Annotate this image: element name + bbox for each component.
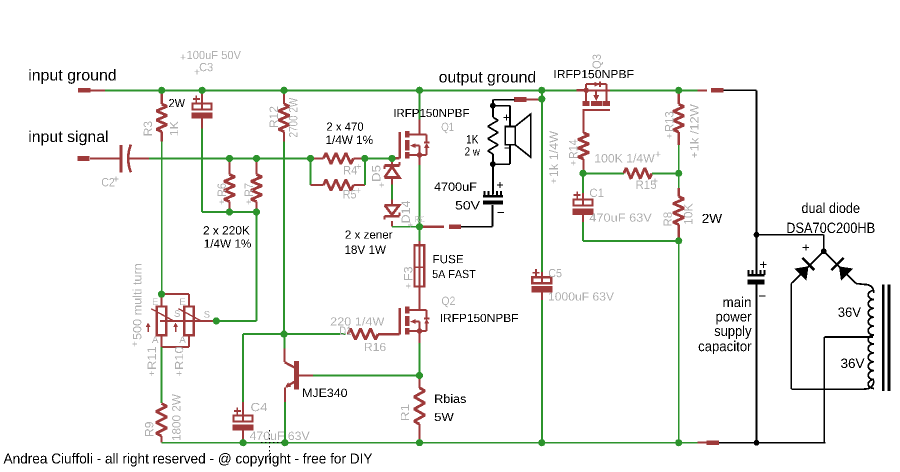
label 36V	[838, 307, 861, 317]
Q3 area (top right)	[577, 89, 587, 91]
node gate Q1 / zeners	[388, 155, 395, 162]
label capacitor	[699, 341, 752, 355]
label +	[356, 164, 361, 169]
transistor Q1 (IRFP150NPBF)	[392, 157, 400, 159]
wire right to coil top	[856, 283, 864, 286]
label + (rotated)	[571, 161, 576, 166]
speaker	[493, 105, 510, 107]
label −	[505, 147, 511, 150]
capacitor C5	[532, 277, 551, 283]
capacitor 4700uF (black)	[492, 164, 494, 194]
resistor R7	[253, 155, 260, 162]
main power supply capacitor (black)	[747, 270, 749, 275]
capacitor C4	[242, 402, 244, 415]
wiper wire	[160, 320, 213, 322]
label 1/4W 1%	[205, 239, 251, 248]
label input signal	[29, 130, 107, 145]
label 1k /12W (rotated)	[690, 104, 699, 150]
label 5A FAST	[433, 270, 476, 278]
label R15	[636, 181, 656, 189]
resistor 1K 2w (black)	[492, 106, 494, 118]
label +	[504, 114, 510, 120]
label E	[153, 298, 158, 305]
label R$1	[416, 216, 425, 223]
label +	[113, 177, 118, 182]
wire R7 to wiper	[256, 212, 258, 321]
capacitor C3	[193, 103, 212, 109]
label C3	[200, 63, 213, 71]
label R4	[344, 166, 357, 174]
label R14 (rotated)	[569, 140, 577, 159]
label C1	[590, 189, 604, 197]
FUSE F3	[419, 227, 421, 241]
label main	[723, 297, 750, 308]
label 220 1/4W	[331, 317, 385, 326]
diode D-left	[791, 251, 823, 283]
input ground pad	[78, 88, 90, 93]
label 2 x zener	[345, 230, 392, 238]
resistor R8	[678, 173, 680, 188]
R16 gate line	[280, 331, 287, 338]
diode D-right	[824, 251, 856, 283]
resistor R16	[348, 329, 378, 340]
label supply	[715, 325, 752, 339]
label S	[204, 311, 209, 318]
label 4700uF	[434, 182, 476, 190]
wire C4 top	[243, 333, 284, 335]
label R7 (rotated)	[245, 184, 253, 197]
diode D5 (zener)	[391, 158, 393, 164]
label −	[498, 211, 504, 214]
label R6 (rotated)	[217, 183, 225, 196]
resistor R4	[307, 155, 314, 162]
label R11 (rotated)	[148, 347, 156, 369]
wire R3 to pot	[161, 142, 163, 295]
label −	[759, 295, 765, 298]
transistor Q2 (IRFP150NPBF)	[392, 333, 400, 335]
label +	[194, 69, 199, 74]
label 100K 1/4W	[595, 154, 654, 163]
capacitor C5	[541, 272, 543, 277]
transformer core	[882, 284, 885, 391]
label 50V	[456, 201, 480, 209]
label 1K	[467, 135, 478, 143]
resistor R13	[675, 87, 682, 94]
label 36V	[841, 359, 864, 369]
diode D14 (zener)	[391, 200, 393, 204]
wire left loop	[790, 284, 792, 390]
label 100uF 50V	[187, 51, 241, 59]
label R8 (rotated)	[663, 212, 671, 225]
label + (rotated)	[132, 342, 137, 347]
label + (rotated)	[406, 284, 411, 289]
label dual diode	[802, 202, 859, 213]
capacitor C1	[582, 173, 584, 193]
capacitor C4	[234, 415, 253, 421]
label Q3 (rotated)	[592, 54, 603, 68]
wire D14 to output node	[392, 226, 420, 228]
MJE340 emitter	[287, 382, 295, 386]
label F3 (rotated)	[404, 267, 412, 280]
wire speaker return (black)	[461, 226, 492, 228]
label 470uF 63V	[250, 432, 310, 440]
resistor R14	[582, 121, 584, 133]
label + (rotated)	[149, 371, 154, 376]
label + (rotated)	[379, 183, 384, 188]
label C4	[251, 403, 267, 411]
POT AREA	[158, 291, 165, 298]
label 5W	[435, 413, 454, 421]
label Rbias	[435, 394, 466, 403]
label 2 x 470	[327, 122, 363, 130]
label R10 (rotated)	[175, 347, 183, 369]
label input ground	[29, 69, 115, 84]
label + (rotated)	[692, 153, 697, 158]
transistor T1 MJE340	[284, 334, 286, 348]
bottom pad	[707, 440, 719, 445]
label power	[716, 314, 751, 325]
wire to main cap (black)	[723, 89, 756, 91]
label + (rotated)	[551, 179, 556, 184]
resistor R6	[226, 155, 233, 162]
label 2700 2W (rotated)	[289, 98, 297, 137]
center tap	[824, 336, 873, 338]
label 1800 2W (rotated)	[172, 394, 180, 440]
label MJE340	[303, 389, 347, 397]
resistor R1 Rbias	[418, 376, 420, 388]
wire D5-D14	[391, 185, 393, 200]
V+ pad top right	[697, 89, 707, 91]
label DSA70C200HB	[787, 223, 874, 234]
label + (rotated)	[246, 200, 251, 205]
label 1k 1/4W (rotated)	[549, 131, 558, 176]
label Q1	[442, 123, 454, 134]
label + (rotated)	[408, 223, 413, 228]
label R9 (rotated)	[145, 422, 153, 436]
label output ground	[439, 71, 535, 86]
junction dot overlay	[158, 87, 165, 94]
resistor R5 parallel loop	[310, 158, 312, 185]
wire R12 to R16 node	[283, 142, 285, 335]
wire Q1 source to output node	[419, 165, 421, 227]
capacitor C3 node	[199, 87, 206, 94]
label 500 multi turn (rotated)	[133, 264, 142, 339]
capacitor C1	[574, 200, 593, 206]
BOTTOM RAIL	[162, 442, 698, 444]
wire C3 to divider	[201, 129, 203, 212]
resistor R9	[156, 404, 167, 437]
input signal pad	[77, 156, 89, 161]
label D1	[340, 327, 351, 335]
label S	[174, 310, 179, 317]
label 1K (rotated)	[170, 121, 178, 135]
label 1/4W 1%	[326, 135, 372, 144]
label IRFP150NPBF	[555, 70, 634, 78]
resistor R12	[280, 87, 287, 94]
wire input signal	[149, 157, 311, 159]
transformer T2 secondary	[868, 291, 874, 389]
label + (rotated)	[219, 200, 224, 205]
label + (rotated)	[177, 371, 182, 376]
label 18V 1W	[345, 245, 386, 253]
label +	[655, 152, 660, 157]
resistor R3	[158, 87, 165, 94]
C5 net vertical	[538, 87, 545, 94]
wire bottom black	[719, 442, 825, 444]
label R5	[343, 190, 356, 198]
transistor Q3 (IRFP150NPBF)	[584, 88, 589, 93]
output ground pad	[514, 97, 526, 102]
label D5 (rotated)	[372, 166, 380, 181]
label 2 x 220K	[204, 226, 250, 234]
label 1000uF 63V	[549, 292, 614, 300]
label R1 (rotated)	[401, 405, 409, 420]
label 10K (rotated)	[684, 204, 692, 224]
label R12 (rotated)	[269, 107, 277, 127]
label + (rotated)	[667, 134, 672, 139]
wire pad to speaker	[494, 99, 515, 101]
output pad	[449, 224, 461, 229]
label IRFP150NPBF	[394, 109, 469, 117]
label Andrea Ciuffoli _ all right reserved _ @ copyright _ free for DIY	[4, 453, 373, 467]
pot R10	[184, 307, 194, 336]
label +	[180, 55, 185, 60]
capacitor C2	[120, 145, 123, 172]
label +	[356, 188, 361, 193]
wire top rail	[90, 89, 577, 91]
label 2W	[169, 99, 185, 107]
dual diode node	[757, 234, 824, 236]
label +	[803, 244, 809, 250]
label C2	[102, 178, 114, 186]
label +	[497, 182, 503, 188]
wire Q1 drain to rail	[419, 90, 421, 119]
label +	[760, 261, 766, 267]
label A	[179, 336, 185, 343]
label IRFP150NPBF	[441, 314, 518, 322]
label R16	[365, 343, 386, 351]
pot R11	[157, 307, 167, 336]
resistor R15	[583, 172, 624, 174]
label R13 (rotated)	[665, 112, 673, 131]
label 470uF 63V	[590, 213, 652, 221]
label D14 (rotated)	[402, 201, 410, 222]
label R3 (rotated)	[144, 122, 152, 136]
label 2 w	[465, 147, 480, 155]
label E	[180, 298, 185, 305]
wire Q2 source down	[419, 343, 421, 376]
label A	[152, 336, 158, 343]
label FUSE	[434, 255, 464, 263]
label Q2	[442, 297, 455, 308]
pot bottoms	[161, 335, 163, 347]
wire base to R1 node	[313, 375, 420, 377]
wire pot to R9	[161, 347, 163, 403]
label +	[652, 179, 657, 184]
output node	[416, 223, 423, 230]
Q3 gate bar	[582, 109, 610, 111]
label 2W	[702, 214, 722, 223]
label C5	[549, 269, 562, 277]
origin cross dotted	[269, 430, 271, 461]
